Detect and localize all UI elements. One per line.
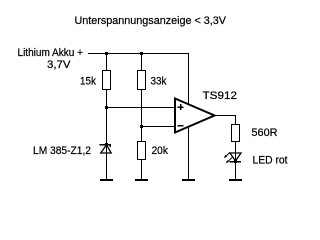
svg-text:15k: 15k	[80, 76, 96, 88]
svg-text:20k: 20k	[152, 145, 169, 157]
svg-text:LM 385-Z1,2: LM 385-Z1,2	[33, 145, 91, 157]
svg-text:Unterspannungsanzeige < 3,3V: Unterspannungsanzeige < 3,3V	[75, 15, 227, 27]
svg-text:LED rot: LED rot	[253, 155, 288, 167]
svg-text:3,7V: 3,7V	[47, 59, 71, 71]
svg-text:560R: 560R	[252, 127, 278, 139]
svg-text:TS912: TS912	[203, 90, 238, 102]
svg-text:Lithium Akku +: Lithium Akku +	[18, 47, 84, 59]
svg-text:33k: 33k	[151, 76, 167, 88]
